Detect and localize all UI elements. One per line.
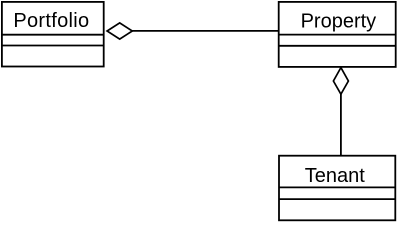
svg-text:Portfolio: Portfolio [13, 10, 89, 32]
svg-text:Property: Property [301, 11, 377, 33]
svg-text:Tenant: Tenant [305, 165, 365, 187]
